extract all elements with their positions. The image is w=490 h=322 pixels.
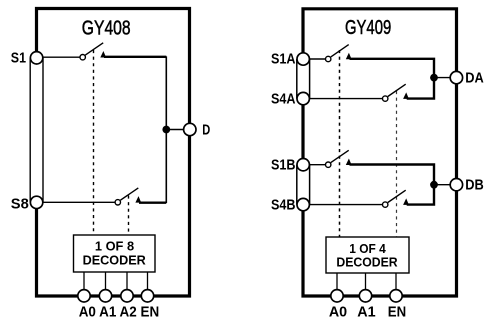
switch SW8 arm xyxy=(120,188,138,200)
control line dashed from decoder to SW-4 column xyxy=(396,91,398,237)
control line dashed from decoder to SW1 xyxy=(93,50,95,235)
decoder U1A box 1 OF 8 DECODER xyxy=(74,235,156,272)
wire S4B to switch SW4B xyxy=(309,204,382,206)
switch SW4A pole xyxy=(383,96,388,101)
wire S1A to switch SW1A xyxy=(309,58,325,60)
terminal S1B xyxy=(297,159,309,171)
pin A0 xyxy=(331,290,343,302)
control line dashed from decoder to SW8 xyxy=(128,196,130,236)
decoder U2A box 1 OF 4 DECODER xyxy=(326,237,409,273)
switch SW1A arm xyxy=(331,45,349,57)
switch SW1A contact arrow xyxy=(346,53,352,60)
wire S1-S8 channel left line xyxy=(29,58,31,203)
pin EN xyxy=(390,290,402,302)
IC U2 outline left edge segment between S4A and S1B xyxy=(301,99,304,165)
switch SW1A pole xyxy=(326,56,331,61)
svg-text:DECODER: DECODER xyxy=(336,254,398,269)
wire decoder pin A2 stub xyxy=(126,272,128,292)
switch SW4A arm xyxy=(388,84,406,96)
node DB junction xyxy=(430,181,438,189)
pin A1 xyxy=(99,290,111,302)
wire node to terminal DB xyxy=(434,184,451,186)
terminal S4A xyxy=(297,92,309,104)
svg-text:A1: A1 xyxy=(357,304,375,320)
svg-text:EN: EN xyxy=(388,304,406,320)
IC U2 outline GY409 xyxy=(303,9,457,296)
svg-text:S4A: S4A xyxy=(271,91,296,107)
svg-text:DA: DA xyxy=(465,71,484,87)
wire SW1B output to node DB (bold) xyxy=(350,165,435,205)
pin A2 xyxy=(121,290,133,302)
switch SW1B contact arrow xyxy=(346,159,352,166)
svg-text:A0 A1 A2 EN: A0 A1 A2 EN xyxy=(79,304,160,320)
wire decoder pin EN stub xyxy=(147,272,149,292)
wire S1B-S4B channel right line xyxy=(309,165,311,205)
svg-text:S1B: S1B xyxy=(271,158,296,174)
svg-text:S1: S1 xyxy=(11,50,26,66)
terminal S8 xyxy=(30,196,42,208)
wire node to terminal DA xyxy=(434,77,451,79)
node D junction xyxy=(162,126,170,134)
switch SW1B arm xyxy=(331,150,349,162)
svg-text:S1A: S1A xyxy=(271,52,296,68)
wire node to terminal D xyxy=(166,129,184,131)
switch SW4A contact arrow xyxy=(403,92,409,99)
switch SW1 pole xyxy=(80,55,85,60)
wire S8 to switch SW8 xyxy=(43,201,116,203)
switch SW4B contact arrow xyxy=(403,198,409,205)
switch SW4B pole xyxy=(383,202,388,207)
wire decoder pin A1 stub xyxy=(365,273,367,292)
wire S1-S8 channel right line xyxy=(42,58,44,203)
wire decoder pin A0 stub xyxy=(83,272,85,292)
wire decoder pin EN stub xyxy=(395,273,397,292)
wire S1B to switch SW1B xyxy=(309,164,325,166)
wire decoder pin A1 stub xyxy=(105,272,107,292)
switch SW1B pole xyxy=(326,162,331,167)
node DA junction xyxy=(430,74,438,82)
wire S1 to switch SW1 xyxy=(43,56,81,58)
svg-text:A0: A0 xyxy=(329,304,347,320)
wire S1A-S4A channel left line xyxy=(296,59,298,99)
wire SW1 output to node D branch (bold) xyxy=(104,56,166,58)
wire SW8 output to node D branch (bold) xyxy=(139,202,166,204)
pin EN xyxy=(141,290,153,302)
wire S1A-S4A channel right line xyxy=(309,59,311,99)
switch SW4B arm xyxy=(388,190,406,202)
svg-text:D: D xyxy=(202,123,210,139)
svg-text:GY409: GY409 xyxy=(345,16,391,39)
wire S1B-S4B channel left line xyxy=(296,165,298,205)
terminal DB xyxy=(450,179,462,191)
terminal DA xyxy=(450,71,462,83)
wire vertical bus to node D xyxy=(165,56,167,203)
wire S4A to switch SW4A xyxy=(309,98,382,100)
svg-text:GY408: GY408 xyxy=(82,17,131,40)
switch SW8 pole xyxy=(115,200,120,205)
switch SW1 contact arrow xyxy=(100,51,106,58)
control line dashed from decoder to SW-1 column xyxy=(339,50,341,237)
switch SW1 arm xyxy=(85,43,103,55)
switch SW8 contact arrow xyxy=(135,196,141,203)
svg-text:DB: DB xyxy=(465,178,484,194)
terminal S4B xyxy=(297,198,309,210)
svg-text:DECODER: DECODER xyxy=(83,252,147,267)
svg-text:S4B: S4B xyxy=(271,197,296,213)
terminal D xyxy=(184,123,196,135)
pin A1 xyxy=(359,290,371,302)
terminal S1A xyxy=(297,53,309,65)
terminal S1 xyxy=(30,52,42,64)
IC U1 outline GY408 xyxy=(37,9,190,297)
wire decoder pin A0 stub xyxy=(336,273,338,292)
svg-text:S8: S8 xyxy=(11,197,29,213)
pin A0 xyxy=(78,290,90,302)
wire SW1A output to node DA (bold) xyxy=(350,59,435,99)
